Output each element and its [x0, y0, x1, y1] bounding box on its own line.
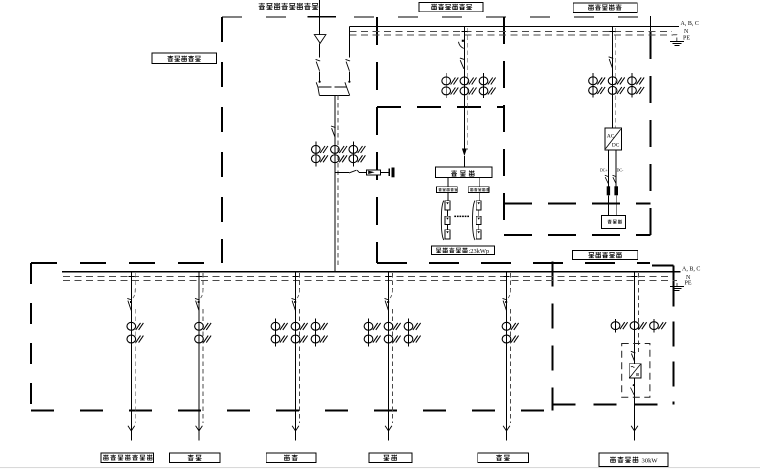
- svg-text:N: N: [684, 29, 689, 35]
- svg-text:PE: PE: [683, 35, 690, 41]
- svg-text:AC: AC: [607, 134, 615, 140]
- svg-text:DC-: DC-: [617, 169, 624, 173]
- svg-text:PE: PE: [685, 281, 692, 287]
- svg-text::23kWp: :23kWp: [469, 248, 490, 255]
- svg-text:A, B, C: A, B, C: [681, 21, 699, 27]
- svg-text:DC: DC: [612, 143, 620, 149]
- svg-text:DC+: DC+: [600, 169, 608, 173]
- svg-text:A, B, C: A, B, C: [682, 266, 700, 272]
- svg-text:30kW: 30kW: [642, 458, 659, 465]
